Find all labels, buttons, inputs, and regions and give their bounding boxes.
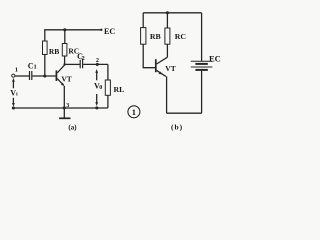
node RC(b) top junction: [166, 11, 169, 14]
wire RB(b) bottom to base: [143, 44, 155, 67]
battery EC plate short thick lower: [195, 69, 207, 71]
svg-text:VT: VT: [165, 64, 175, 73]
battery EC plate short thick: [195, 63, 207, 65]
wire RL bottom: [107, 95, 109, 108]
wire battery bottom: [201, 71, 203, 113]
wire RB(b) top: [142, 13, 144, 28]
wire input to C1: [15, 75, 29, 77]
transistor VT emitter arrowhead: [61, 83, 65, 87]
annotation circled 1: [128, 106, 140, 118]
node collector junction: [63, 63, 65, 65]
wire RC(b) bottom: [166, 44, 168, 57]
svg-text:EC: EC: [209, 53, 221, 63]
transistor VT(b) base bar: [155, 59, 157, 72]
resistor RC (b): [165, 28, 170, 44]
svg-text:3: 3: [66, 102, 69, 109]
svg-text:C1: C1: [28, 61, 37, 70]
wire C2 to node 2 and RL corner: [83, 63, 108, 65]
voltage Vi arrow lower: [12, 98, 14, 104]
transistor VT(b) emitter line: [157, 70, 166, 76]
capacitor C2: [80, 60, 82, 68]
svg-text:RB: RB: [49, 47, 59, 56]
node 2 dot: [96, 63, 99, 66]
svg-text:RB: RB: [150, 32, 161, 41]
svg-text:2: 2: [82, 55, 85, 62]
wire RC bottom to collector node: [64, 56, 66, 64]
wire bottom rail (b): [167, 112, 202, 114]
resistor RB: [43, 41, 48, 55]
svg-text:VT: VT: [61, 74, 71, 83]
wire emitter down: [63, 86, 65, 108]
node input terminal 1: [12, 74, 15, 77]
transistor VT collector line: [57, 65, 64, 73]
capacitor C1: [30, 71, 32, 80]
wire RC(b) top: [166, 13, 168, 28]
node EC terminal dot: [100, 29, 102, 31]
transistor VT(b) collector line: [157, 57, 168, 64]
wire bottom rail (a): [13, 107, 108, 109]
node 3 dot: [63, 106, 66, 109]
node junction RB-base: [43, 74, 46, 77]
svg-text:(b): (b): [171, 122, 183, 131]
battery EC plate long lower: [191, 66, 213, 68]
resistor RB (b): [141, 28, 146, 45]
svg-text:EC: EC: [104, 27, 115, 36]
wire top rail (a): [44, 29, 101, 31]
wire RC top: [64, 30, 66, 44]
wire top rail (b): [143, 12, 201, 14]
voltage Vo arrow upper: [96, 72, 98, 81]
transistor VT base bar: [55, 70, 57, 81]
svg-text:RL: RL: [114, 85, 125, 94]
svg-text:(a): (a): [68, 124, 77, 132]
voltage Vi arrow upper: [12, 81, 14, 89]
wire collector to C2: [65, 63, 80, 65]
transistor VT emitter line: [57, 79, 63, 86]
svg-text:2: 2: [96, 57, 99, 64]
battery EC plate long top: [191, 60, 213, 62]
wire emitter(b) down: [166, 76, 168, 113]
transistor VT(b) emitter arrowhead: [159, 72, 163, 75]
svg-text:1: 1: [132, 107, 136, 117]
ground: [63, 108, 65, 118]
wire RB bottom: [44, 55, 46, 77]
svg-text:1: 1: [15, 66, 18, 73]
wire RB top: [44, 30, 46, 41]
svg-text:RC: RC: [175, 32, 187, 41]
wire RL drop: [107, 64, 109, 80]
wire battery top: [201, 13, 203, 61]
resistor RC: [62, 44, 67, 57]
voltage Vo arrow lower: [96, 94, 98, 103]
node bottom-left corner dot: [12, 106, 15, 109]
node junction RC-toprail: [63, 28, 66, 31]
wire C1 to base: [32, 75, 55, 77]
node Vo bottom dot: [95, 106, 98, 109]
svg-text:0: 0: [99, 85, 102, 91]
resistor RL: [105, 80, 110, 95]
